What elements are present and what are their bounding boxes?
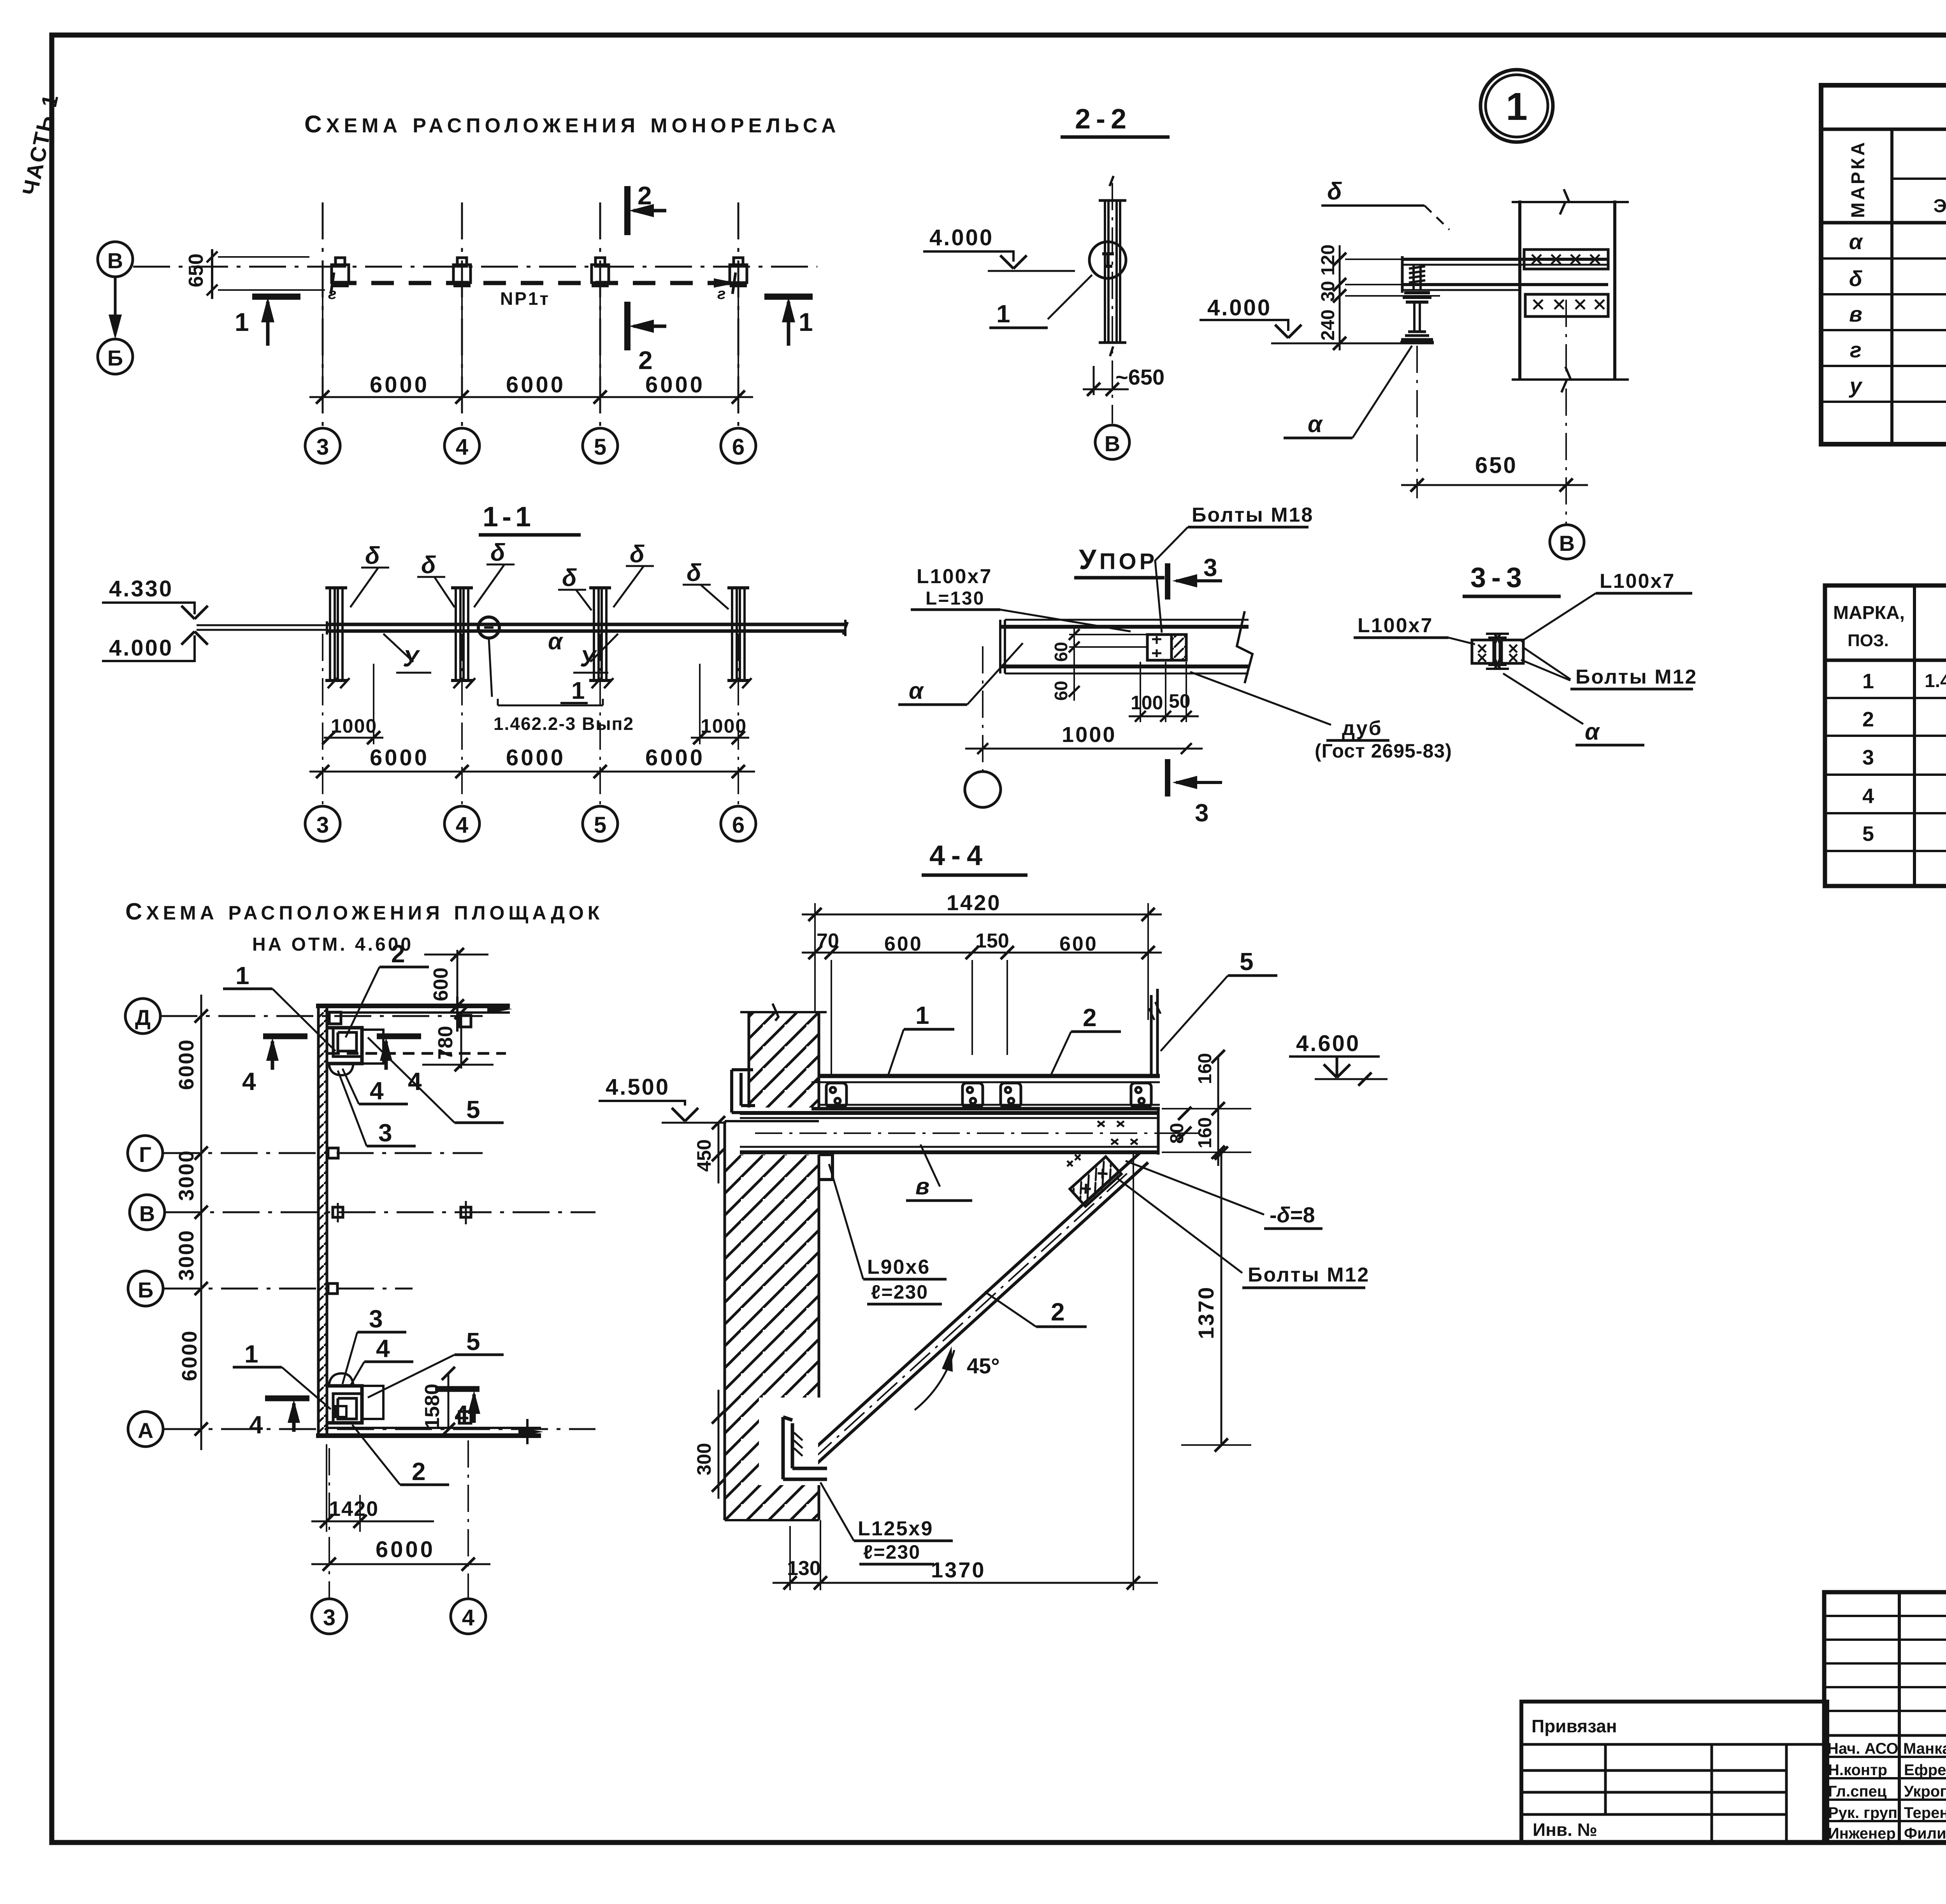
svg-text:1: 1: [799, 308, 813, 336]
svg-text:3: 3: [323, 1605, 335, 1630]
grid axis 6 vertical: [738, 202, 739, 428]
leader 2 on 4-4: [1051, 1004, 1121, 1075]
node 1 alpha leader: [1284, 346, 1412, 438]
leader 4 bottom plan: [350, 1334, 413, 1386]
svg-text:150: 150: [975, 930, 1009, 952]
table1 headers: [1848, 131, 1946, 222]
table2 row 3: [1862, 745, 1946, 770]
dim 1000 upor: [965, 722, 1203, 754]
U labels: [383, 634, 618, 673]
bottom platform unit bracket: [328, 1373, 383, 1423]
svg-text:У: У: [403, 645, 420, 672]
svg-text:Болты М12: Болты М12: [1575, 666, 1697, 688]
grid axis 5 vertical: [599, 202, 601, 428]
monorail beam 1-1: [327, 620, 848, 636]
axis line B: [133, 266, 817, 268]
table2 row 1: [1862, 670, 1946, 693]
svg-text:Д: Д: [135, 1005, 151, 1030]
svg-text:НА ОТМ. 4.600: НА ОТМ. 4.600: [252, 934, 413, 955]
leader 5 bottom plan: [368, 1327, 504, 1398]
svg-text:МАРКА: МАРКА: [1848, 140, 1869, 218]
leader 2 bottom plan: [352, 1425, 449, 1486]
svg-text:6000: 6000: [645, 745, 705, 770]
section mark 2 top: [627, 181, 666, 235]
svg-text:Укропова: Укропова: [1904, 1783, 1946, 1800]
platform left closure angle: [732, 1070, 755, 1113]
svg-text:6000: 6000: [175, 1039, 198, 1090]
svg-text:2: 2: [1083, 1004, 1097, 1032]
3-3 left angle plate: [1472, 640, 1494, 663]
svg-text:1: 1: [996, 300, 1010, 328]
staff names: [1903, 1740, 1946, 1842]
table1 row v: [1849, 299, 1946, 331]
svg-text:у: у: [1848, 373, 1863, 398]
svg-text:2: 2: [391, 940, 405, 968]
svg-text:В: В: [1559, 531, 1575, 556]
section title 2-2: [1061, 104, 1170, 137]
svg-text:Привязан: Привязан: [1532, 1716, 1617, 1736]
svg-text:Рук. груп: Рук. груп: [1828, 1804, 1897, 1821]
squares top platform: [329, 1012, 471, 1027]
grid circle 4 on 1-1: [444, 806, 479, 841]
svg-text:1: 1: [1506, 85, 1528, 128]
label 1 with bracket 1.462.2-3: [489, 638, 634, 734]
wall plan: [318, 1006, 327, 1436]
dim 6000x3 on 1-1: [309, 745, 755, 778]
grid circle Б plan: [128, 1271, 163, 1306]
svg-text:δ: δ: [1327, 178, 1342, 205]
svg-text:в: в: [1849, 302, 1862, 326]
dims 100 50 upor: [1129, 662, 1199, 722]
svg-text:4.000: 4.000: [109, 635, 173, 661]
dim 1000 left: [322, 664, 383, 744]
dim 1000 right: [691, 664, 749, 744]
leader 4 top plan mid: [342, 1069, 408, 1105]
svg-text:L100х7: L100х7: [917, 565, 992, 588]
elevation 4.600 on 4-4: [1289, 1031, 1387, 1086]
section title 1-1: [479, 501, 581, 535]
axis В line: [165, 1211, 595, 1213]
node 1 dim 650: [1401, 346, 1588, 498]
elevation 4.000 on 2-2: [923, 225, 1075, 271]
svg-text:в: в: [915, 1173, 929, 1199]
dim 1420 top of 4-4: [802, 890, 1162, 921]
dim 650 on 2-2: [1083, 365, 1164, 396]
title Упор: [1074, 544, 1164, 578]
table1 row u: [1848, 371, 1946, 403]
svg-text:50: 50: [1169, 690, 1191, 712]
svg-text:4: 4: [456, 812, 468, 838]
svg-text:2: 2: [1051, 1298, 1065, 1326]
svg-text:6000: 6000: [645, 372, 705, 397]
delta leaders: [350, 564, 729, 610]
svg-text:ПОЗ.: ПОЗ.: [1848, 631, 1889, 650]
svg-text:δ: δ: [1849, 266, 1863, 291]
svg-text:6000: 6000: [178, 1330, 201, 1381]
grid circle 5 on 1-1: [583, 806, 618, 841]
dim 1370 bottom: [837, 1154, 1158, 1590]
alpha label on beam: [548, 628, 564, 654]
upor oak block with hatch: [1171, 635, 1186, 660]
upor bolt plate: [1147, 635, 1171, 660]
section mark 4 top-right: [377, 1036, 422, 1095]
svg-text:ℓ=230: ℓ=230: [871, 1281, 928, 1303]
monorail dashed line NP1t: [331, 273, 737, 294]
svg-text:4.000: 4.000: [1207, 295, 1272, 320]
svg-text:В: В: [139, 1201, 155, 1226]
svg-text:(Гост 2695-83): (Гост 2695-83): [1315, 740, 1452, 762]
svg-text:45°: 45°: [967, 1354, 1000, 1378]
dim 1580 bottom plan: [421, 1367, 455, 1436]
top platform edge at Д: [316, 997, 512, 1032]
svg-text:5: 5: [1240, 948, 1254, 976]
delta labels on 1-1: [365, 539, 701, 591]
node 1 detail: column: [1512, 189, 1629, 392]
label L100x7 left 3-3: [1354, 614, 1475, 644]
svg-text:δ: δ: [490, 539, 505, 566]
label Болты М12 on 4-4: [1118, 1179, 1370, 1288]
section mark 3 top upor: [1168, 554, 1222, 600]
svg-text:α: α: [1849, 229, 1863, 254]
dim 1420 bottom: [311, 1444, 434, 1532]
svg-text:4: 4: [462, 1605, 474, 1630]
grid circle 5: [583, 428, 618, 463]
svg-text:160: 160: [1195, 1117, 1215, 1148]
beam B 4-4: [740, 1110, 1199, 1155]
svg-text:3: 3: [369, 1305, 383, 1333]
svg-text:г: г: [1850, 338, 1862, 362]
dim 1370 right vertical: [1181, 1146, 1251, 1452]
svg-text:Болты М12: Болты М12: [1248, 1264, 1370, 1286]
table2 row 5: [1862, 822, 1946, 846]
svg-text:1: 1: [235, 962, 249, 990]
svg-text:3: 3: [316, 812, 329, 838]
grid circle В plan: [130, 1195, 165, 1230]
label L90x6 l=230: [829, 1164, 947, 1304]
detail circle on 2-2: [1089, 242, 1126, 278]
svg-text:L125х9: L125х9: [858, 1517, 933, 1540]
part label ЧАСТЬ 1: [18, 91, 63, 198]
column at grid 4: [451, 588, 475, 688]
label L100x7 L=130: [911, 565, 1131, 631]
svg-text:5: 5: [1862, 822, 1874, 846]
svg-text:Г: Г: [139, 1142, 151, 1167]
grid circle 4: [444, 428, 479, 463]
label L100x7 right 3-3: [1521, 570, 1692, 642]
svg-text:1370: 1370: [931, 1558, 986, 1582]
svg-text:4: 4: [1862, 784, 1874, 808]
leader 3 top plan: [338, 1071, 416, 1147]
brace gusset with bolts: [1067, 1155, 1121, 1206]
section mark 3 bottom upor: [1168, 759, 1222, 827]
svg-text:5: 5: [594, 434, 606, 460]
svg-text:5: 5: [466, 1095, 480, 1123]
svg-text:Нач. АСО: Нач. АСО: [1827, 1740, 1898, 1757]
svg-text:5: 5: [594, 812, 606, 838]
grid axis 3 vertical: [322, 202, 324, 428]
grid circle B: [98, 242, 133, 277]
svg-text:4.330: 4.330: [109, 576, 173, 601]
monorail supports at grids: [332, 258, 747, 285]
svg-text:УПОР: УПОР: [1079, 544, 1157, 575]
table1 row delta: [1849, 264, 1946, 295]
3-3 right angle plate: [1502, 640, 1523, 663]
svg-text:6000: 6000: [506, 372, 566, 397]
grid circle 6 on 1-1: [721, 806, 756, 841]
svg-text:2: 2: [1862, 708, 1874, 731]
leader 1 on 4-4: [887, 1001, 954, 1078]
leader 5 top plan: [368, 1037, 504, 1123]
label Болты М18: [1155, 504, 1314, 633]
grid circle Б: [98, 339, 133, 374]
grid circle 3 on 1-1: [305, 806, 340, 841]
svg-text:L=130: L=130: [926, 588, 985, 609]
svg-text:2: 2: [412, 1457, 426, 1486]
upor beam (rail plan): [1000, 611, 1252, 683]
node 1 elevation 4.000: [1200, 295, 1401, 343]
svg-text:δ: δ: [365, 542, 380, 569]
elevation 4.000: [102, 625, 326, 661]
axis Г line: [163, 1152, 483, 1154]
title block: left labels: [1532, 1716, 1617, 1840]
svg-text:~650: ~650: [1115, 365, 1164, 389]
wall upper block 4-4: [740, 1004, 827, 1108]
svg-text:Н.контр: Н.контр: [1828, 1762, 1887, 1779]
alpha label 3-3: [1503, 673, 1644, 745]
leader 5 on 4-4: [1161, 948, 1277, 1051]
svg-text:1580: 1580: [421, 1384, 444, 1429]
center line 2-2: [1112, 183, 1113, 424]
svg-text:1.450.3-3.1 2.1.4.0.0.-03: 1.450.3-3.1 2.1.4.0.0.-03: [1925, 671, 1946, 691]
svg-text:δ: δ: [687, 559, 701, 586]
svg-text:4.500: 4.500: [606, 1074, 670, 1100]
svg-text:4-4: 4-4: [929, 840, 989, 871]
section mark 4 bottom-right: [435, 1389, 480, 1428]
svg-text:Болты М18: Болты М18: [1192, 504, 1314, 526]
svg-text:120: 120: [1318, 244, 1338, 276]
column at grid 5: [589, 588, 613, 688]
railing post right: [1149, 989, 1161, 1076]
svg-text:Манкаускас: Манкаускас: [1903, 1740, 1946, 1757]
svg-text:4: 4: [376, 1334, 390, 1363]
node circle 1: [1481, 70, 1553, 142]
vertical dim chain left: [175, 995, 208, 1450]
svg-text:α: α: [1585, 719, 1600, 745]
arrow from B to Б: [109, 277, 122, 339]
svg-text:300: 300: [693, 1443, 715, 1475]
svg-text:650: 650: [1475, 453, 1517, 478]
title block: left attach table: [1521, 1702, 1827, 1842]
squares mid rows: [328, 1148, 471, 1294]
svg-text:4: 4: [242, 1067, 256, 1095]
svg-text:4: 4: [370, 1077, 384, 1105]
svg-text:6000: 6000: [506, 745, 566, 770]
grid circle 3: [305, 428, 340, 463]
title block: main frame: [1824, 1592, 1946, 1842]
dim line 6000x3 plan: [309, 372, 753, 404]
svg-text:6000: 6000: [376, 1537, 435, 1562]
table1 row g: [1850, 335, 1946, 367]
column at grid 3: [325, 588, 350, 688]
grid circle 3 bottom plan: [312, 1599, 347, 1634]
svg-text:4.000: 4.000: [929, 225, 994, 250]
svg-text:г: г: [717, 285, 725, 302]
dim 650 between axis and monorail: [185, 249, 325, 299]
table2 row 2: [1862, 708, 1946, 731]
column at grid 6: [727, 588, 752, 688]
svg-text:6000: 6000: [370, 745, 429, 770]
dim 130 bottom: [773, 1520, 837, 1590]
grid circle 4 bottom plan: [451, 1599, 486, 1634]
svg-text:Терентьев: Терентьев: [1904, 1804, 1946, 1821]
svg-text:А: А: [138, 1418, 153, 1443]
svg-text:70: 70: [817, 930, 839, 952]
svg-text:α: α: [548, 628, 564, 654]
dim 780 top plan: [422, 1006, 494, 1071]
leader 1 bottom plan: [233, 1340, 331, 1409]
platform stiffener plates: [826, 1083, 1151, 1107]
node 1 detail: channel beam: [1402, 256, 1608, 293]
alpha label upor: [898, 643, 1023, 705]
svg-text:160: 160: [1195, 1053, 1215, 1084]
svg-text:1: 1: [1862, 670, 1874, 693]
svg-text:4: 4: [455, 1400, 469, 1428]
svg-text:ЭСКИЗ: ЭСКИЗ: [1934, 196, 1946, 216]
svg-text:СХЕМА РАСПОЛОЖЕНИЯ МОНОРЕЛЬС: СХЕМА РАСПОЛОЖЕНИЯ МОНОРЕЛЬСА: [304, 111, 840, 138]
svg-text:3: 3: [1862, 746, 1874, 769]
label 2 on brace: [985, 1292, 1087, 1327]
svg-text:1420: 1420: [947, 890, 1001, 915]
svg-text:δ: δ: [630, 541, 645, 568]
dim 450 left: [693, 1116, 725, 1183]
svg-text:60: 60: [1051, 642, 1071, 662]
extension lines to dim: [323, 271, 738, 407]
svg-text:600: 600: [1059, 933, 1098, 955]
svg-text:Б: Б: [107, 346, 123, 370]
svg-text:1000: 1000: [331, 715, 377, 737]
svg-text:Инв. №: Инв. №: [1533, 1820, 1597, 1840]
elevation 4.500 on 4-4: [599, 1074, 726, 1123]
svg-text:В: В: [1105, 431, 1120, 456]
svg-text:L90х6: L90х6: [867, 1256, 930, 1278]
svg-text:ℓ=230: ℓ=230: [863, 1541, 920, 1563]
svg-text:450: 450: [693, 1139, 715, 1172]
dims 60 60 upor: [1051, 627, 1146, 701]
svg-text:6000: 6000: [370, 372, 429, 397]
svg-text:δ: δ: [421, 552, 436, 578]
svg-text:1000: 1000: [701, 715, 747, 737]
svg-text:3: 3: [378, 1119, 392, 1147]
grid circle А plan: [128, 1412, 163, 1447]
title 3-3: [1463, 562, 1561, 596]
section mark 2 bottom: [627, 302, 666, 374]
svg-text:МАРКА,: МАРКА,: [1833, 603, 1905, 623]
grid circle 6: [721, 428, 756, 463]
L90x6 seat angle under beam: [819, 1155, 832, 1180]
svg-text:Ефремова: Ефремова: [1904, 1762, 1946, 1779]
svg-text:СХЕМА РАСПОЛОЖЕНИЯ ПЛОЩАДОК: СХЕМА РАСПОЛОЖЕНИЯ ПЛОЩАДОК: [125, 898, 603, 925]
right dims 160 160 80: [1162, 1050, 1251, 1166]
dim 600 top plan: [424, 948, 488, 1013]
square on bottom platform: [459, 1412, 471, 1423]
axis Б line: [163, 1288, 413, 1290]
svg-text:δ: δ: [562, 564, 577, 591]
svg-text:240: 240: [1318, 309, 1338, 341]
label в on 4-4: [906, 1145, 972, 1201]
section mark 1 left: [235, 297, 300, 346]
svg-text:1-1: 1-1: [483, 501, 535, 533]
svg-text:780: 780: [434, 1026, 457, 1060]
label L125x9 l=230: [820, 1482, 953, 1564]
svg-text:30: 30: [1318, 281, 1338, 302]
grid axis 4 vertical: [461, 202, 463, 428]
svg-text:600: 600: [430, 967, 452, 1001]
table2 headers: [1833, 602, 1946, 652]
grid circle Д: [125, 999, 160, 1034]
section title 4-4: [922, 840, 1027, 875]
svg-text:-δ=8: -δ=8: [1270, 1203, 1315, 1227]
leader 1 on 2-2: [989, 275, 1092, 328]
axis Д line: [160, 1015, 483, 1017]
table1 row alpha: [1849, 228, 1946, 259]
node 1 column axis to В: [1550, 300, 1584, 559]
svg-text:1370: 1370: [1194, 1286, 1218, 1339]
svg-text:60: 60: [1051, 681, 1071, 701]
svg-text:Инженер: Инженер: [1828, 1825, 1896, 1842]
svg-text:600: 600: [884, 933, 923, 955]
column 2-2: [1099, 176, 1126, 356]
svg-text:3000: 3000: [175, 1229, 198, 1281]
upor dash-dot axis: [982, 646, 984, 773]
bottom angle L125x9: [760, 1398, 827, 1485]
leader 3 bottom plan: [342, 1305, 406, 1384]
oak label: [1190, 672, 1452, 762]
grid circle Г: [128, 1136, 163, 1171]
svg-text:650: 650: [185, 253, 207, 287]
svg-text:1420: 1420: [329, 1497, 379, 1521]
svg-text:2: 2: [638, 346, 653, 374]
svg-text:100: 100: [1131, 692, 1163, 714]
platform deck 4-4: [811, 1076, 1160, 1109]
title: scheme of monorail layout: [304, 111, 840, 138]
svg-text:5: 5: [466, 1327, 480, 1355]
label NP1t: [500, 288, 550, 309]
diagonal brace 4-4: [798, 1153, 1148, 1473]
svg-text:3000: 3000: [175, 1150, 198, 1201]
svg-text:130: 130: [787, 1557, 821, 1580]
svg-text:4: 4: [456, 434, 468, 460]
svg-text:В: В: [107, 248, 123, 273]
svg-text:6: 6: [732, 812, 745, 838]
svg-text:α: α: [1308, 411, 1323, 437]
staff titles: [1827, 1740, 1898, 1842]
dim chain 70 600 150 600: [802, 903, 1162, 1078]
svg-text:4.600: 4.600: [1296, 1031, 1360, 1056]
label -delta=8: [1126, 1161, 1323, 1229]
svg-text:NР1т: NР1т: [500, 288, 550, 309]
table2 row 4: [1862, 784, 1946, 808]
grid circle В on 2-2: [1095, 425, 1129, 459]
svg-text:1000: 1000: [1062, 722, 1117, 747]
bottom platform edge at А: [316, 1419, 543, 1444]
table: specification frame: [1825, 585, 1946, 886]
weld marks at supports: [328, 285, 725, 302]
label Болты М12 3-3: [1521, 647, 1697, 689]
leader 2 top plan: [346, 940, 429, 1037]
elevation 4.330: [102, 576, 208, 619]
svg-text:Гл.спец: Гл.спец: [1828, 1783, 1887, 1800]
extension axes down to circles 1-1: [323, 634, 738, 805]
